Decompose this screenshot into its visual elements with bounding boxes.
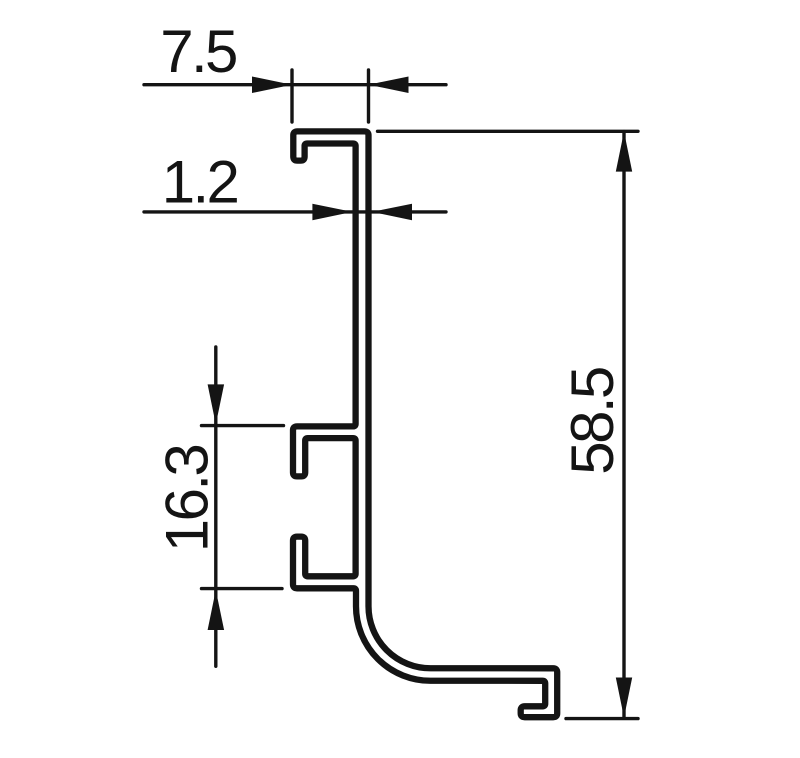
dim 7.5 ext right xyxy=(367,70,370,122)
dim 7.5 line xyxy=(144,83,446,86)
dim 16.3 tick bottom xyxy=(202,587,283,590)
dim 1.2 arrow right xyxy=(372,204,412,221)
dim 16.3 line xyxy=(214,347,217,666)
svg-text:1.2: 1.2 xyxy=(162,149,238,216)
dim 58.5 line xyxy=(622,132,625,718)
dim 7.5 ext left xyxy=(290,70,293,122)
svg-text:58.5: 58.5 xyxy=(559,368,626,475)
profile outline xyxy=(293,131,557,717)
dim 58.5 arrow top xyxy=(616,132,632,172)
dim 1.2 line xyxy=(144,210,446,213)
dim 58.5 ext bottom xyxy=(566,717,638,720)
dim 58.5 ext top xyxy=(378,130,639,133)
dim 16.3 arrow top xyxy=(208,384,225,424)
dim 58.5 arrow bottom xyxy=(616,678,632,718)
dim 16.3 tick top xyxy=(202,424,284,427)
svg-text:16.3: 16.3 xyxy=(153,446,220,553)
dim 1.2 arrow left xyxy=(312,204,352,221)
dim 7.5 arrow left xyxy=(252,77,292,94)
dim 16.3 arrow bottom xyxy=(208,590,225,630)
svg-text:7.5: 7.5 xyxy=(160,18,236,85)
dim 7.5 arrow right xyxy=(369,77,409,94)
